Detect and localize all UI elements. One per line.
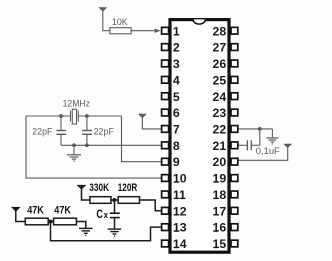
svg-text:8: 8 — [173, 139, 180, 153]
svg-text:15: 15 — [213, 237, 227, 251]
svg-text:C: C — [96, 207, 103, 221]
svg-text:2: 2 — [173, 41, 180, 55]
svg-text:19: 19 — [213, 172, 227, 186]
svg-text:330K: 330K — [89, 182, 109, 194]
svg-text:0,1uF: 0,1uF — [256, 146, 281, 156]
svg-text:22pF: 22pF — [94, 127, 115, 137]
svg-text:10K: 10K — [112, 17, 128, 27]
svg-text:28: 28 — [213, 24, 227, 38]
svg-text:5: 5 — [173, 90, 180, 104]
svg-text:27: 27 — [213, 41, 227, 55]
svg-text:3: 3 — [173, 57, 180, 71]
svg-text:20: 20 — [213, 155, 227, 169]
svg-text:13: 13 — [173, 221, 187, 235]
svg-text:24: 24 — [213, 90, 227, 104]
svg-text:26: 26 — [213, 57, 227, 71]
svg-text:12MHz: 12MHz — [63, 98, 90, 108]
svg-text:18: 18 — [213, 188, 227, 202]
svg-text:22: 22 — [213, 123, 227, 137]
svg-text:1: 1 — [173, 24, 180, 38]
svg-text:47K: 47K — [27, 205, 44, 217]
svg-text:11: 11 — [173, 188, 186, 202]
svg-text:25: 25 — [213, 73, 227, 87]
svg-text:17: 17 — [213, 204, 227, 218]
svg-text:47K: 47K — [54, 205, 71, 217]
svg-text:10: 10 — [173, 172, 187, 186]
svg-text:12: 12 — [173, 204, 187, 218]
svg-text:16: 16 — [213, 221, 227, 235]
svg-text:6: 6 — [173, 106, 180, 120]
svg-text:120R: 120R — [118, 182, 137, 194]
svg-text:x: x — [104, 210, 108, 220]
svg-text:21: 21 — [213, 139, 227, 153]
svg-text:14: 14 — [173, 237, 187, 251]
svg-text:23: 23 — [213, 106, 227, 120]
svg-text:7: 7 — [173, 123, 180, 137]
svg-text:9: 9 — [173, 155, 180, 169]
svg-text:22pF: 22pF — [32, 127, 53, 137]
svg-text:4: 4 — [173, 73, 180, 87]
